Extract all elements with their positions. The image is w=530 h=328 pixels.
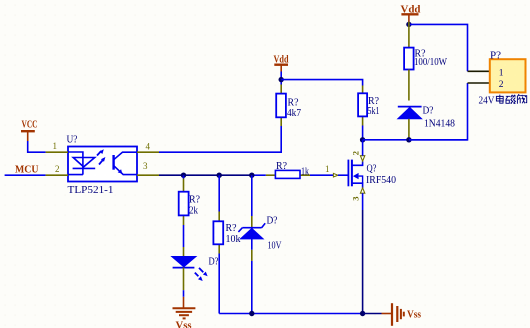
wire R? 5k1 to drain node xyxy=(362,126,364,140)
node drain junction right xyxy=(406,137,411,142)
svg-text:R?: R? xyxy=(189,195,201,206)
svg-text:R?: R? xyxy=(226,223,238,234)
LED light arrows xyxy=(97,151,101,156)
wire R? 2k to LED xyxy=(183,225,185,247)
zener diode D? 10V xyxy=(238,216,282,261)
node junction at R? 2k xyxy=(181,173,186,178)
pin 1 arrow (gate) xyxy=(333,173,338,177)
resistor R? 4k7 xyxy=(276,85,301,127)
power port Vdd (middle) xyxy=(274,55,289,72)
resistor R? 1k xyxy=(266,161,310,178)
wire R? 10k branch xyxy=(218,175,220,211)
svg-text:P?: P? xyxy=(490,51,502,62)
svg-text:2: 2 xyxy=(55,164,60,174)
node bottom at zener xyxy=(249,311,254,316)
svg-text:MCU: MCU xyxy=(15,165,39,176)
ground Vss (earth) xyxy=(173,297,196,328)
node Vdd-right junction xyxy=(406,22,411,27)
diode D? 1N4148 xyxy=(398,106,455,140)
svg-text:R?: R? xyxy=(276,161,288,172)
svg-text:D?: D? xyxy=(423,106,435,117)
node junction at R? 10k xyxy=(217,173,222,178)
svg-text:2k: 2k xyxy=(189,206,198,217)
node junction at zener xyxy=(249,173,254,178)
wire Q? source to bottom rail xyxy=(362,193,364,210)
wire drain rail xyxy=(363,139,468,141)
svg-text:10k: 10k xyxy=(226,234,241,245)
pin 2 xyxy=(468,82,490,84)
wire connector pin2 to drain rail xyxy=(409,83,468,140)
svg-text:U?: U? xyxy=(67,135,79,146)
source tap xyxy=(352,183,363,188)
svg-text:D?: D? xyxy=(267,216,279,227)
wire U? pin4 to R? 4k7 xyxy=(159,126,281,152)
channel bar xyxy=(351,160,353,187)
wire bottom rail xyxy=(219,313,362,315)
LED light arrows xyxy=(199,268,203,272)
svg-text:10V: 10V xyxy=(268,241,283,252)
svg-text:3: 3 xyxy=(143,161,148,171)
pin 3 xyxy=(137,174,159,176)
optocoupler U? TLP521-1 xyxy=(46,135,159,197)
node Vdd-mid junction xyxy=(279,77,284,82)
pin 1 xyxy=(46,151,68,153)
svg-text:D?: D? xyxy=(209,257,219,268)
svg-text:4k7: 4k7 xyxy=(287,108,301,119)
wire U? pin3 rail (dark) xyxy=(159,174,252,176)
connector P? 24V solenoid xyxy=(468,51,527,107)
svg-text:5k1: 5k1 xyxy=(368,106,380,117)
wire R? 10k to bottom rail xyxy=(218,254,220,314)
wire R? 2k branch xyxy=(183,175,185,178)
LED D? xyxy=(172,247,219,290)
wire Vdd right rail to connector xyxy=(409,24,468,71)
svg-text:IRF540: IRF540 xyxy=(366,175,396,186)
pin 3 arrow (source) xyxy=(360,188,364,193)
svg-text:R?: R? xyxy=(288,98,300,109)
wire zener to bottom rail xyxy=(251,261,253,314)
drain tap xyxy=(352,161,363,165)
wire Vdd node to R? 5k1 xyxy=(281,80,362,86)
svg-text:3: 3 xyxy=(351,196,361,200)
wire Vdd to node xyxy=(280,72,282,85)
node drain junction left xyxy=(360,137,365,142)
resistor R? 5k1 xyxy=(358,86,379,126)
svg-text:Vss: Vss xyxy=(407,310,421,321)
wire MCU input xyxy=(5,174,46,176)
svg-text:1k: 1k xyxy=(301,166,309,177)
svg-text:1N4148: 1N4148 xyxy=(424,119,455,130)
wire R? 1k to Q? gate xyxy=(310,174,333,176)
pin 4 xyxy=(137,151,159,153)
wire to R? 1k xyxy=(252,174,266,176)
svg-text:1: 1 xyxy=(499,68,504,78)
internal phototransistor xyxy=(112,155,114,170)
svg-text:4: 4 xyxy=(146,142,151,152)
svg-text:TLP521-1: TLP521-1 xyxy=(68,185,114,196)
resistor R? 10k xyxy=(213,212,240,254)
power port VCC xyxy=(21,119,38,141)
node bottom at Q? source xyxy=(360,311,365,316)
resistor R? 100/10W xyxy=(404,22,447,101)
power port Vdd (right) xyxy=(401,5,421,23)
wire LED to Vss ground xyxy=(183,290,185,297)
wire zener branch xyxy=(251,175,253,216)
svg-text:2: 2 xyxy=(499,80,504,90)
power port Vss (right, bar ground) xyxy=(382,303,422,326)
svg-text:Q?: Q? xyxy=(367,164,377,175)
svg-text:100/10W: 100/10W xyxy=(414,57,447,68)
svg-text:1: 1 xyxy=(53,141,58,151)
resistor R? 2k xyxy=(179,179,201,226)
svg-text:2: 2 xyxy=(351,151,361,155)
svg-text:1: 1 xyxy=(325,164,330,174)
gate bar xyxy=(347,160,349,187)
pin 2 xyxy=(46,174,68,176)
pin 2 arrow (drain) xyxy=(360,156,364,162)
pin 1 xyxy=(468,70,490,72)
wire to Vss right xyxy=(363,313,382,315)
svg-text:24V: 24V xyxy=(479,96,496,107)
mosfet Q? IRF540 xyxy=(325,140,396,201)
svg-text:Vss: Vss xyxy=(176,321,192,328)
substrate arrow xyxy=(353,173,359,179)
wire VCC to U? pin1 xyxy=(28,141,46,152)
svg-text:VCC: VCC xyxy=(22,119,38,130)
internal LED xyxy=(68,152,83,175)
